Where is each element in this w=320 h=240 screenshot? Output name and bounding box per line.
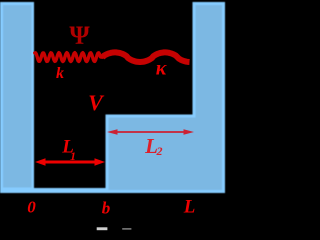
cropped caption fragment 1 [97, 227, 108, 230]
svg-text:b: b [102, 199, 111, 218]
svg-text:κ: κ [156, 58, 167, 80]
svg-text:0: 0 [27, 198, 36, 217]
L2 arrowhead right [184, 129, 195, 135]
L2 arrowhead left [107, 129, 118, 135]
cropped caption fragment 2 [122, 228, 131, 229]
L2 arrow shaft [111, 131, 190, 133]
svg-text:V: V [88, 90, 105, 115]
L1 arrow shaft [43, 161, 97, 164]
L1 arrowhead right [95, 158, 106, 166]
svg-text:k: k [56, 65, 64, 82]
svg-text:1: 1 [70, 149, 76, 163]
wavefunction region 1 (fast, k) [35, 53, 103, 62]
wavefunction region 2 (slow, kappa) [103, 52, 190, 62]
step and right wall fill [109, 5, 223, 190]
svg-text:Ψ: Ψ [69, 21, 90, 50]
svg-text:2: 2 [156, 144, 163, 158]
L1 arrowhead left [35, 158, 46, 166]
svg-text:L: L [183, 197, 196, 218]
left wall fill [3, 5, 32, 188]
potential outline (light border polygon) [0, 2, 225, 193]
